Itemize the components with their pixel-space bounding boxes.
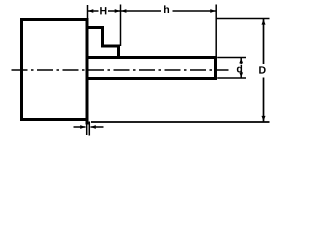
small gap dimension arrows <box>74 125 104 129</box>
extension line shaft bottom for d <box>217 77 246 79</box>
step profile <box>87 28 119 58</box>
dimension h <box>121 5 217 16</box>
dimension D <box>259 19 265 122</box>
shaft outline <box>87 58 216 79</box>
bottom reference line for D <box>91 121 270 123</box>
extension line shaft top for d <box>217 57 246 59</box>
top reference line for D <box>216 18 269 20</box>
head right edge stub below bottom <box>86 120 89 125</box>
extension line below shaft start <box>88 122 90 136</box>
extension line at head face <box>87 5 89 19</box>
extension line at step end <box>120 5 122 47</box>
head outline <box>22 20 88 120</box>
centerline <box>12 69 229 71</box>
extension line at shaft end <box>215 5 217 57</box>
dimension d <box>237 58 243 78</box>
extension line below head face <box>86 122 88 136</box>
dimension H <box>88 6 121 17</box>
